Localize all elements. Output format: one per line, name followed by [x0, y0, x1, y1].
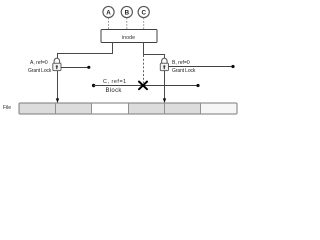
padlock left (lock A)	[53, 58, 61, 70]
wire: dashed C request line down to X	[143, 55, 145, 83]
wire: lock B holder line with end dot	[168, 66, 231, 68]
cell 6 lightly shaded	[201, 104, 237, 114]
wire: lock A holder line with end dot	[61, 67, 88, 69]
svg-text:A: A	[106, 9, 111, 16]
cell 5 shaded	[164, 104, 200, 114]
blocked X mark	[139, 82, 147, 90]
divider 2	[91, 103, 93, 114]
process circle A	[103, 6, 114, 17]
svg-text:Grant Lock: Grant Lock	[28, 68, 52, 74]
cell 4 shaded	[128, 104, 164, 114]
svg-text:A, ref=0: A, ref=0	[30, 60, 48, 66]
svg-text:inode: inode	[122, 35, 135, 41]
wire: inode to lock A (stepped)	[58, 43, 113, 59]
svg-text:Grant Lock: Grant Lock	[172, 68, 196, 74]
divider 3	[128, 103, 130, 114]
svg-text:C: C	[141, 9, 146, 16]
wire: dashed drop from C to inode	[143, 18, 145, 30]
cell 2 shaded	[56, 104, 92, 114]
divider 5	[200, 103, 202, 114]
wire: inode to lock B (stepped)	[144, 43, 165, 59]
wire: lock B down to file with arrowhead	[164, 71, 166, 100]
svg-text:B: B	[125, 9, 130, 16]
divider 4	[164, 103, 166, 114]
file block strip	[19, 103, 237, 114]
process circle C	[138, 6, 149, 17]
svg-text:File: File	[3, 105, 11, 111]
wire: dashed drop from B to inode	[126, 18, 128, 30]
svg-text:Block: Block	[106, 88, 123, 94]
cell 1 shaded	[20, 104, 56, 114]
svg-text:C, ref=1: C, ref=1	[103, 79, 127, 85]
wire: dashed drop from A to inode	[108, 18, 110, 30]
padlock right (lock B)	[160, 58, 168, 70]
wire: lock A down to file with arrowhead	[57, 71, 59, 100]
process circle B	[121, 6, 132, 17]
inode box	[101, 30, 157, 43]
divider 1	[55, 103, 57, 114]
wire: process C blocked request line with dots	[92, 84, 95, 87]
svg-text:B, ref=0: B, ref=0	[172, 60, 190, 66]
